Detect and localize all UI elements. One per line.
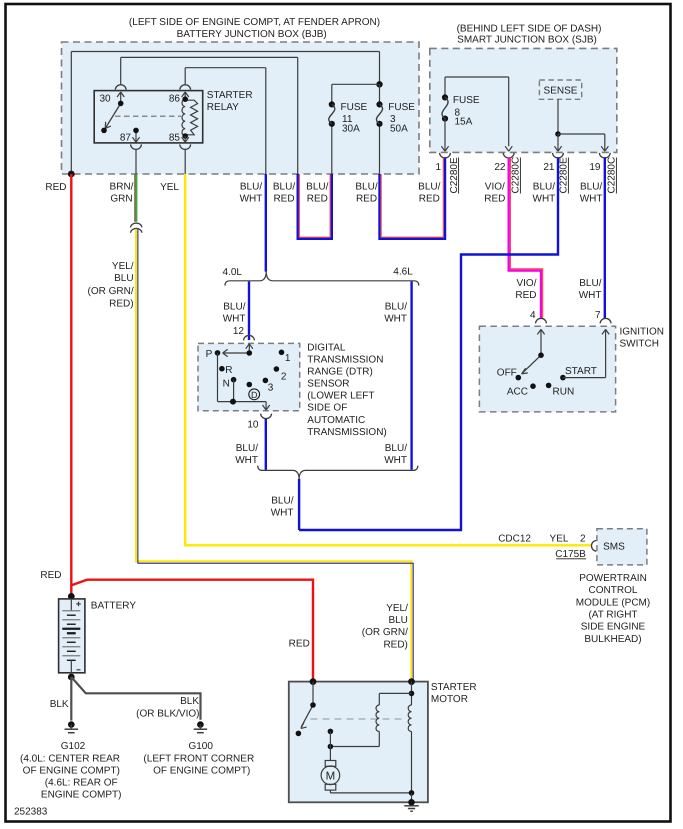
connector label C2280C at pin 19 bbox=[607, 157, 618, 194]
svg-text:BLK: BLK bbox=[50, 699, 69, 710]
svg-text:30A: 30A bbox=[342, 124, 360, 135]
connector label C175B bbox=[555, 549, 586, 560]
SJB pin number labels bbox=[435, 162, 600, 173]
DTR R contact dot bbox=[219, 366, 225, 372]
svg-text:CDC12: CDC12 bbox=[498, 534, 531, 545]
wire BLU/RED: pin30 loop out bbox=[298, 174, 332, 239]
wire BLU/WHT label below pin 10 bbox=[235, 443, 258, 466]
svg-text:FUSE: FUSE bbox=[388, 102, 415, 113]
DTR caption bbox=[307, 342, 386, 437]
svg-text:(4.6L: REAR OF: (4.6L: REAR OF bbox=[45, 777, 118, 788]
relay pin 30 connector bump bbox=[115, 85, 126, 90]
DTR pin 12 arrow bbox=[246, 344, 253, 353]
svg-text:FUSE: FUSE bbox=[453, 95, 480, 106]
svg-text:FUSE: FUSE bbox=[341, 102, 368, 113]
svg-text:YEL/: YEL/ bbox=[112, 261, 134, 272]
svg-text:BLU/: BLU/ bbox=[385, 443, 407, 454]
svg-text:SENSOR: SENSOR bbox=[307, 379, 349, 390]
wire BLU/WHT label above pin 12 bbox=[223, 302, 246, 325]
svg-text:G102: G102 bbox=[61, 741, 86, 752]
fuse F8 15A bbox=[442, 94, 448, 100]
svg-text:VIO/: VIO/ bbox=[485, 182, 505, 193]
connector label C2280E at pin 1 bbox=[449, 157, 460, 193]
PCM SMS dashed box bbox=[597, 529, 647, 565]
wire: fuse 8 to pin 1 bbox=[444, 119, 446, 147]
svg-text:ACC: ACC bbox=[507, 387, 528, 398]
svg-text:C2280C: C2280C bbox=[511, 157, 522, 194]
svg-text:RED: RED bbox=[273, 194, 294, 205]
wire: SENSE junction to pin 19 bbox=[558, 134, 605, 146]
svg-text:RED: RED bbox=[45, 182, 66, 193]
svg-text:BLU: BLU bbox=[114, 273, 133, 284]
svg-text:WHT: WHT bbox=[235, 455, 258, 466]
svg-text:WHT: WHT bbox=[240, 194, 263, 205]
SJB pin 1 arrow and bump bbox=[440, 146, 451, 158]
svg-text:SMART JUNCTION BOX (SJB): SMART JUNCTION BOX (SJB) bbox=[457, 34, 597, 45]
svg-text:P: P bbox=[206, 349, 213, 360]
svg-text:WHT: WHT bbox=[580, 194, 603, 205]
relay coil K1 winding bbox=[182, 99, 198, 136]
svg-text:BLU/: BLU/ bbox=[533, 182, 555, 193]
wire: fuse top rail bbox=[332, 84, 380, 104]
ignition switch dashed box bbox=[479, 326, 615, 412]
svg-text:C2280E: C2280E bbox=[559, 157, 570, 193]
DTR contact dot 1 bbox=[279, 350, 285, 356]
svg-text:30: 30 bbox=[100, 93, 112, 104]
wire: relay pin 86 lead bbox=[185, 68, 266, 174]
svg-text:OFF: OFF bbox=[497, 368, 517, 379]
svg-text:M: M bbox=[326, 771, 336, 783]
battery plates bbox=[62, 599, 80, 673]
svg-text:IGNITION: IGNITION bbox=[620, 327, 664, 338]
starter motor M1 bbox=[321, 747, 411, 793]
DTR P contact dot bbox=[215, 350, 221, 356]
svg-text:4: 4 bbox=[530, 310, 536, 321]
wire YEL: relay 85 to PCM bbox=[185, 174, 591, 545]
svg-text:CONTROL: CONTROL bbox=[589, 585, 638, 596]
ignition OFF contact dot bbox=[516, 375, 522, 381]
ignition pin 7 connector bump bbox=[600, 318, 611, 323]
battery minus sign bbox=[77, 669, 81, 671]
svg-text:WHT: WHT bbox=[579, 290, 602, 301]
wire BLK: battery negative to G102 bbox=[70, 677, 72, 721]
wire VIO/RED label upper bbox=[484, 182, 505, 205]
svg-text:4.6L: 4.6L bbox=[393, 267, 413, 278]
brace: 4.0L / 4.6L split bbox=[225, 271, 419, 285]
starter case ground symbol bbox=[404, 793, 419, 811]
ignition START contact dot bbox=[560, 375, 566, 381]
svg-text:(OR GRN/: (OR GRN/ bbox=[362, 627, 408, 638]
node: SENSE junction dot bbox=[555, 131, 561, 137]
svg-text:OF ENGINE COMPT): OF ENGINE COMPT) bbox=[153, 765, 250, 776]
svg-text:WHT: WHT bbox=[384, 314, 407, 325]
svg-text:STARTER: STARTER bbox=[431, 682, 477, 693]
starter motor contact dots bbox=[328, 729, 334, 750]
relay pin 87 terminal arrow bbox=[132, 130, 139, 142]
svg-text:TRANSMISSION: TRANSMISSION bbox=[307, 354, 383, 365]
relay switch blade bbox=[105, 103, 120, 128]
BJB caption bbox=[129, 17, 380, 40]
wire: SENSE junction to pin 21 bbox=[557, 134, 559, 146]
DTR circled D label bbox=[249, 389, 260, 400]
svg-text:SIDE OF: SIDE OF bbox=[307, 403, 347, 414]
node: starter S junction dot bbox=[408, 678, 415, 685]
ignition RUN contact dot bbox=[546, 383, 552, 389]
DTR contact dot 2 bbox=[274, 366, 280, 372]
svg-text:POWERTRAIN: POWERTRAIN bbox=[579, 573, 647, 584]
starter relay U-box bbox=[94, 91, 203, 143]
svg-text:RELAY: RELAY bbox=[207, 102, 239, 113]
svg-text:BLU/: BLU/ bbox=[236, 443, 258, 454]
svg-text:AUTOMATIC: AUTOMATIC bbox=[307, 415, 365, 426]
wire BLU/WHT label below BJB bbox=[240, 182, 263, 205]
fuse F8 feed rail in SJB bbox=[445, 77, 509, 146]
svg-text:BLK: BLK bbox=[180, 696, 199, 707]
svg-text:21: 21 bbox=[543, 162, 555, 173]
svg-text:VIO/: VIO/ bbox=[516, 278, 536, 289]
DTR pin 12 connector bump bbox=[244, 335, 255, 340]
wire YEL/BLU label at starter bbox=[362, 603, 408, 651]
relay coil terminal dots 86/85 bbox=[182, 96, 188, 102]
wire BLU/RED: fuse 3 to SJB pin 1 bbox=[380, 157, 446, 238]
wire BLU/WHT label 4.6L upper bbox=[384, 302, 407, 325]
svg-text:SIDE ENGINE: SIDE ENGINE bbox=[581, 622, 646, 633]
svg-text:85: 85 bbox=[169, 133, 181, 144]
svg-text:1: 1 bbox=[435, 162, 441, 173]
node: fuse rail junction dot bbox=[376, 81, 382, 87]
svg-text:RANGE (DTR): RANGE (DTR) bbox=[307, 367, 373, 378]
svg-text:RED: RED bbox=[289, 639, 310, 650]
node: battery positive junction dot bbox=[68, 593, 75, 600]
DTR internal junction dot bbox=[230, 399, 236, 405]
SENSE dashed box bbox=[539, 80, 581, 99]
fuse F11 label bbox=[341, 102, 368, 135]
svg-text:86: 86 bbox=[169, 93, 181, 104]
fuse F8 label bbox=[453, 95, 480, 127]
SJB dashed enclosure bbox=[430, 48, 617, 152]
node: starter ground junction dot bbox=[409, 790, 415, 796]
node: BJB battery feed junction dot bbox=[68, 171, 75, 178]
svg-text:(OR GRN/: (OR GRN/ bbox=[87, 286, 133, 297]
relay pin 87 dot bbox=[133, 128, 139, 134]
ground G102 caption bbox=[20, 741, 121, 800]
svg-text:MODULE (PCM): MODULE (PCM) bbox=[576, 597, 650, 608]
svg-text:WHT: WHT bbox=[223, 314, 246, 325]
svg-text:(AT RIGHT: (AT RIGHT bbox=[588, 609, 637, 620]
relay pin 86 terminal arrow bbox=[182, 92, 189, 99]
svg-text:3: 3 bbox=[268, 383, 274, 394]
svg-text:(OR BLK/VIO): (OR BLK/VIO) bbox=[136, 709, 199, 720]
wire BLU/WHT: merged output bbox=[298, 479, 300, 530]
relay pin 87 connector bump bbox=[131, 144, 142, 149]
svg-text:DIGITAL: DIGITAL bbox=[307, 342, 346, 353]
starter motor caption bbox=[431, 682, 477, 705]
svg-text:BLU/: BLU/ bbox=[273, 182, 295, 193]
svg-text:19: 19 bbox=[589, 162, 601, 173]
svg-text:N: N bbox=[223, 378, 230, 389]
svg-text:BLU: BLU bbox=[388, 615, 407, 626]
wire: SENSE output stem bbox=[557, 99, 559, 134]
svg-text:RED: RED bbox=[307, 194, 328, 205]
battery plus sign bbox=[76, 602, 81, 607]
svg-text:GRN: GRN bbox=[110, 194, 132, 205]
fuse F11 30A bbox=[329, 101, 335, 107]
wire BLU/WHT label above ignition pin 7 bbox=[579, 278, 602, 301]
wire BLU/RED label at SJB pin1 bbox=[418, 182, 440, 205]
wire VIO/RED: SJB pin 22 to ignition pin 4 bbox=[509, 157, 543, 318]
svg-text:252383: 252383 bbox=[14, 807, 48, 818]
svg-text:SWITCH: SWITCH bbox=[620, 339, 659, 350]
svg-text:7: 7 bbox=[595, 310, 601, 321]
svg-text:BLU/: BLU/ bbox=[240, 182, 262, 193]
brace: merge below DTR bbox=[258, 466, 418, 480]
svg-text:RED): RED) bbox=[383, 639, 407, 650]
wire: relay pin 85 exit stub bbox=[184, 149, 186, 174]
DTR wiper arrow to P bbox=[223, 349, 250, 356]
connector label C2280E at pin 21 bbox=[559, 157, 570, 193]
starter solenoid pull-in winding bbox=[330, 705, 379, 747]
DTR sensor dashed box bbox=[198, 343, 300, 410]
starter solenoid feed bbox=[379, 682, 414, 705]
wire BLU/WHT label below merge bbox=[271, 496, 294, 519]
wire BLK label at G100 bbox=[136, 696, 199, 719]
svg-text:87: 87 bbox=[120, 133, 132, 144]
svg-text:C175B: C175B bbox=[555, 549, 586, 560]
svg-text:(LEFT FRONT CORNER: (LEFT FRONT CORNER bbox=[143, 753, 254, 764]
starter solenoid switch bbox=[301, 682, 313, 729]
svg-text:4.0L: 4.0L bbox=[223, 267, 243, 278]
starter mechanical dashed link bbox=[311, 718, 407, 720]
DTR D contact dot bbox=[247, 382, 253, 388]
svg-text:1: 1 bbox=[285, 353, 291, 364]
DTR pin 10 connector bump bbox=[261, 414, 272, 419]
wire BLU/WHT: 4.0L branch to DTR pin 12 bbox=[248, 281, 250, 340]
DTR pin 10 arrow bbox=[263, 402, 270, 410]
wire RED: BJB to battery positive bbox=[70, 174, 72, 596]
svg-text:YEL: YEL bbox=[550, 534, 569, 545]
svg-text:BLU/: BLU/ bbox=[306, 182, 328, 193]
wire: relay pin 30 feed bbox=[121, 57, 298, 174]
DTR N contact dot bbox=[231, 377, 237, 383]
ground G100 caption bbox=[143, 741, 254, 776]
relay pin 85 terminal arrow bbox=[182, 136, 189, 142]
battery junction box (BJB) dashed enclosure bbox=[62, 42, 420, 174]
relay blade contact dot bbox=[101, 128, 107, 134]
wire BLK: battery negative to G100 bbox=[71, 677, 200, 720]
wire BLU/WHT: 4.6L bypass branch bbox=[410, 281, 412, 469]
wire BLU/WHT label at pin 19 bbox=[580, 182, 603, 205]
ignition START wire to pin 7 bbox=[563, 329, 609, 377]
svg-text:RUN: RUN bbox=[553, 387, 575, 398]
starter switch contact dot bbox=[296, 731, 302, 737]
svg-text:YEL: YEL bbox=[160, 182, 179, 193]
ignition pin 4 connector bump bbox=[536, 318, 547, 323]
svg-text:MOTOR: MOTOR bbox=[431, 694, 468, 705]
starter solenoid hold winding bbox=[408, 705, 411, 793]
wire YEL/BLU label upper bbox=[87, 261, 133, 310]
connector label C2280C at pin 22 bbox=[511, 157, 522, 194]
svg-text:BLU/: BLU/ bbox=[580, 182, 602, 193]
svg-text:BLU/: BLU/ bbox=[579, 278, 601, 289]
svg-text:10: 10 bbox=[247, 420, 259, 431]
svg-text:2: 2 bbox=[281, 372, 287, 383]
svg-text:START: START bbox=[565, 366, 597, 377]
svg-text:RED: RED bbox=[484, 194, 505, 205]
ignition pin 4 arrow bbox=[537, 329, 544, 355]
svg-text:STARTER: STARTER bbox=[207, 90, 253, 101]
svg-text:BRN/: BRN/ bbox=[110, 182, 134, 193]
SJB pin 21 arrow and bump bbox=[553, 146, 564, 158]
starter switch pivot dot bbox=[310, 702, 316, 708]
wire BLU/RED label at fuse11 drop bbox=[306, 182, 328, 205]
svg-text:BULKHEAD): BULKHEAD) bbox=[584, 634, 641, 645]
starter relay label bbox=[207, 90, 253, 113]
svg-text:ENGINE COMPT): ENGINE COMPT) bbox=[41, 789, 122, 800]
wire VIO/RED label lower bbox=[515, 278, 536, 301]
wire BRN/GRN: relay 87 drop bbox=[135, 174, 136, 222]
svg-text:RED: RED bbox=[40, 570, 61, 581]
svg-text:(BEHIND LEFT SIDE OF DASH): (BEHIND LEFT SIDE OF DASH) bbox=[457, 24, 602, 35]
wire: fuse 3 bottom stub bbox=[379, 124, 381, 174]
SJB pin 22 arrow and bump bbox=[503, 146, 514, 158]
svg-text:SENSE: SENSE bbox=[544, 85, 578, 96]
relay pin 86 connector bump bbox=[180, 85, 191, 90]
svg-text:15A: 15A bbox=[455, 117, 473, 128]
relay blade pivot dot bbox=[118, 101, 124, 107]
wire: battery feed riser inside BJB bbox=[71, 52, 379, 175]
wire BLU/WHT: relay 86 to engine brace bbox=[265, 174, 267, 272]
svg-text:RED: RED bbox=[419, 194, 440, 205]
ground G102 symbol bbox=[65, 721, 79, 732]
fuse F3 label bbox=[388, 102, 415, 135]
svg-text:R: R bbox=[225, 365, 232, 376]
svg-text:YEL/: YEL/ bbox=[386, 603, 408, 614]
battery box bbox=[59, 599, 85, 673]
svg-text:2: 2 bbox=[580, 534, 586, 545]
wire BLU/WHT label 4.6L lower bbox=[384, 443, 407, 466]
wire RED: battery to starter B+ bbox=[72, 580, 313, 682]
SJB pin 19 arrow and bump bbox=[599, 146, 610, 158]
svg-text:BLU/: BLU/ bbox=[355, 182, 377, 193]
wire BLU/RED label at pin30 drop bbox=[273, 182, 295, 205]
wire BLU/WHT: SJB pin 21 to DTR output net bbox=[299, 157, 558, 530]
svg-text:WHT: WHT bbox=[384, 455, 407, 466]
svg-text:50A: 50A bbox=[390, 124, 408, 135]
ignition ACC contact dot bbox=[530, 383, 536, 389]
svg-text:G100: G100 bbox=[188, 741, 213, 752]
PCM pin 2 connector bump bbox=[591, 541, 596, 552]
svg-text:BLU/: BLU/ bbox=[418, 182, 440, 193]
wire BLU/RED label at fuse3 drop bbox=[355, 182, 377, 205]
node: starter B+ junction dot bbox=[310, 678, 317, 685]
ignition blade pivot dot bbox=[538, 352, 544, 358]
svg-text:BATTERY JUNCTION BOX (BJB): BATTERY JUNCTION BOX (BJB) bbox=[177, 29, 327, 40]
relay internal dashed link bbox=[115, 115, 181, 117]
svg-text:RED): RED) bbox=[109, 298, 133, 309]
ground G100 symbol bbox=[194, 721, 208, 732]
svg-text:22: 22 bbox=[494, 162, 506, 173]
PCM caption bbox=[576, 573, 650, 645]
starter motor box bbox=[289, 682, 428, 803]
svg-text:(LEFT SIDE OF ENGINE COMPT, AT: (LEFT SIDE OF ENGINE COMPT, AT FENDER AP… bbox=[129, 17, 380, 28]
relay pin 30 terminal arrow bbox=[117, 92, 124, 103]
DTR contact dot 3 bbox=[263, 378, 269, 384]
wire BRN/GRN label bbox=[110, 182, 134, 205]
svg-text:C2280C: C2280C bbox=[607, 157, 618, 194]
wire: fuse 11 bottom stub bbox=[331, 124, 333, 174]
ignition switch blade bbox=[522, 355, 541, 374]
svg-text:12: 12 bbox=[233, 326, 245, 337]
svg-text:RED: RED bbox=[356, 194, 377, 205]
svg-text:BLU/: BLU/ bbox=[271, 496, 293, 507]
svg-text:BATTERY: BATTERY bbox=[91, 600, 137, 611]
node: battery negative junction dot bbox=[68, 674, 75, 681]
svg-text:OF ENGINE COMPT): OF ENGINE COMPT) bbox=[23, 765, 120, 776]
wire BLU/WHT label at pin 21 bbox=[533, 182, 556, 205]
DTR junction dot pin12 bbox=[247, 350, 253, 356]
wire YEL/BLU: connector to starter solenoid S bbox=[136, 229, 413, 681]
svg-text:SMS: SMS bbox=[603, 541, 625, 552]
svg-text:WHT: WHT bbox=[533, 194, 556, 205]
svg-text:(4.0L: CENTER REAR: (4.0L: CENTER REAR bbox=[20, 753, 120, 764]
svg-text:WHT: WHT bbox=[271, 508, 294, 519]
DTR internal wire P-N to pin 10 bbox=[218, 353, 267, 402]
svg-text:TRANSMISSION): TRANSMISSION) bbox=[307, 427, 386, 438]
wire: relay pin 87 exit stub bbox=[135, 149, 137, 174]
svg-text:(LOWER LEFT: (LOWER LEFT bbox=[307, 391, 374, 402]
relay pin 85 connector bump bbox=[180, 144, 191, 149]
svg-text:BLU/: BLU/ bbox=[223, 302, 245, 313]
fuse F3 50A bbox=[376, 101, 382, 107]
ignition switch caption bbox=[620, 327, 664, 350]
SJB caption bbox=[457, 24, 602, 46]
svg-text:BLU/: BLU/ bbox=[385, 302, 407, 313]
inline connector C on solenoid feed wire bbox=[131, 223, 142, 233]
wire BLU/WHT: DTR pin 10 to merge brace bbox=[265, 418, 267, 470]
wire BLU/WHT: SJB pin 19 to ignition pin 7 bbox=[604, 157, 606, 318]
svg-text:D: D bbox=[251, 390, 258, 400]
svg-text:RED: RED bbox=[515, 290, 536, 301]
